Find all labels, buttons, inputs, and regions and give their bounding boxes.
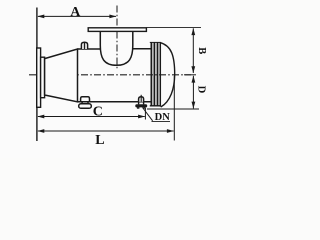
dimension D line bbox=[192, 76, 194, 109]
svg-text:DN: DN bbox=[155, 112, 171, 123]
svg-text:L: L bbox=[95, 133, 104, 148]
D bottom extension line bbox=[147, 108, 199, 110]
drain bell cap bbox=[81, 97, 90, 102]
svg-text:D: D bbox=[196, 86, 207, 94]
svg-text:B: B bbox=[196, 47, 207, 54]
dimension C line bbox=[38, 116, 145, 118]
DN leader line bbox=[143, 108, 153, 121]
drain bell neck bbox=[82, 102, 88, 104]
svg-text:A: A bbox=[70, 5, 81, 20]
C extension line at nozzle bbox=[144, 108, 146, 120]
right body flange bars bbox=[150, 42, 152, 106]
dimension B line bbox=[192, 28, 194, 73]
shell top line bbox=[78, 48, 101, 50]
dished head bbox=[160, 43, 175, 107]
shell bottom line bbox=[78, 101, 151, 103]
left flange hub bbox=[41, 57, 45, 97]
top flange extension line to B bbox=[146, 27, 201, 29]
top nozzle centerline (vertical chain line) bbox=[116, 6, 118, 71]
dimension L line bbox=[38, 130, 174, 132]
bottom nozzle cap bbox=[139, 97, 144, 102]
top plug fitting bbox=[81, 42, 87, 49]
bottom nozzle flange bbox=[135, 104, 147, 107]
left flange extension line bbox=[36, 8, 38, 142]
drain bell foot bbox=[79, 104, 92, 109]
top nozzle flange slab bbox=[88, 28, 146, 32]
svg-text:C: C bbox=[93, 105, 103, 120]
bottom nozzle neck bbox=[138, 102, 140, 105]
top nozzle walls and dome bbox=[100, 31, 133, 65]
DN underline bbox=[152, 120, 171, 122]
left flange plate bbox=[37, 48, 41, 107]
centerline extension at right bbox=[184, 74, 196, 76]
dimension A line bbox=[38, 15, 116, 17]
centerline (horizontal chain line) bbox=[29, 74, 191, 76]
cone reducer bbox=[45, 49, 78, 102]
L extension line at head apex bbox=[173, 76, 175, 141]
